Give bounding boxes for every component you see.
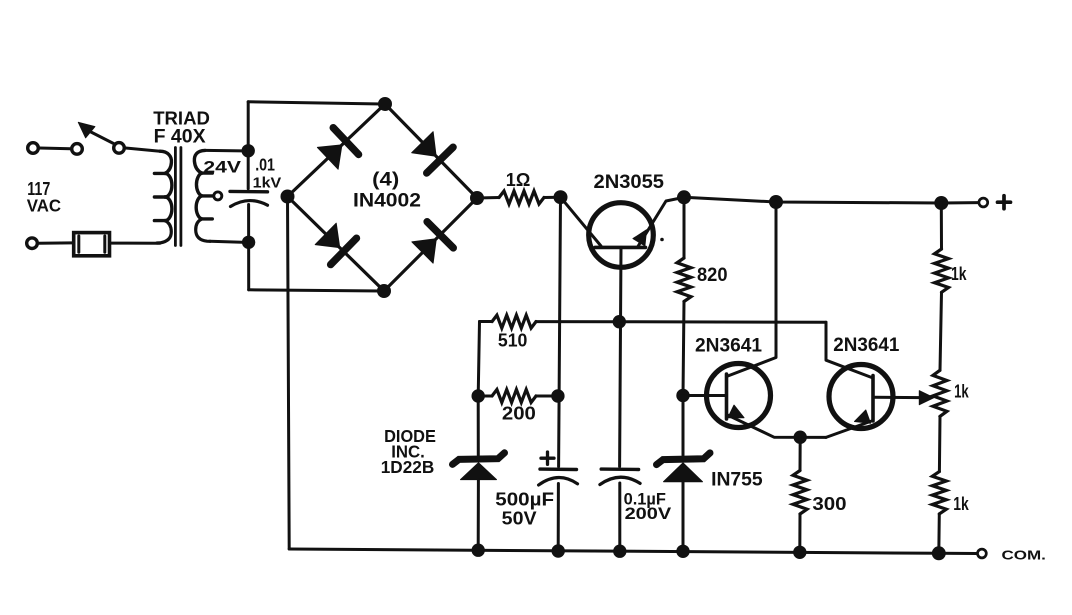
- wire top rail to R6: [940, 203, 943, 249]
- terminal switch left: [72, 144, 83, 155]
- wire 510 to 200 column: [478, 322, 479, 397]
- zener D5 1D22B anode triangle: [461, 463, 497, 480]
- svg-text:24V: 24V: [203, 158, 242, 177]
- label (4) IN4002: [353, 169, 421, 211]
- capacitor C2 500uF plus sign: [541, 452, 554, 464]
- label 117 VAC: [27, 178, 61, 215]
- svg-text:2N3055: 2N3055: [594, 172, 665, 193]
- wire fuse to transformer primary: [112, 242, 161, 245]
- junction base rail at Q1 base: [613, 315, 626, 328]
- wire to bridge top node: [248, 102, 385, 104]
- label 820: [697, 265, 728, 286]
- junction bridge left node: [281, 190, 295, 204]
- wire base rail right: [536, 320, 826, 324]
- svg-text:IN755: IN755: [711, 469, 763, 490]
- resistor R2 820: [677, 258, 691, 302]
- wire bridge to R1: [477, 196, 499, 200]
- svg-text:1k: 1k: [951, 264, 967, 284]
- transistor Q2 2N3641 base bar: [725, 374, 729, 419]
- wire zener D6 to common rail: [682, 482, 685, 552]
- transistor Q3 base wiper arrowhead: [919, 391, 934, 405]
- svg-text:1k: 1k: [953, 494, 969, 514]
- label plus: [998, 196, 1011, 209]
- junction common emitter node: [794, 431, 807, 444]
- svg-text:500µF: 500µF: [495, 488, 554, 509]
- junction common rail at zener D5: [472, 544, 485, 557]
- junction common rail at C2: [552, 544, 565, 557]
- transistor Q1 2N3055 base bar: [595, 246, 646, 250]
- svg-text:200V: 200V: [625, 504, 673, 523]
- transistor Q2 2N3641 collector lead: [727, 202, 777, 377]
- svg-text:.01: .01: [255, 155, 275, 175]
- diode D2 1N4002 (top-right): [412, 132, 453, 173]
- wire base rail: [480, 320, 493, 323]
- potentiometer R7 1k element: [933, 370, 947, 416]
- label 200: [502, 403, 536, 423]
- wire bridge edge top-right: [385, 104, 477, 198]
- transistor Q3 2N3641 emitter lead: [826, 421, 873, 438]
- transistor Q2 2N3641 base lead: [690, 394, 727, 397]
- junction common rail at C3: [613, 545, 626, 558]
- wire R2 to Q2 base: [683, 302, 684, 396]
- svg-text:F 40X: F 40X: [154, 126, 206, 147]
- wire bridge edge left-top: [288, 104, 386, 197]
- zener D6 1N755 anode triangle: [664, 463, 703, 482]
- transistor Q1 2N3055 circle: [589, 203, 654, 268]
- label .01 1kV: [253, 155, 282, 192]
- switch S1 blade: [88, 131, 115, 145]
- svg-text:VAC: VAC: [27, 197, 61, 216]
- svg-text:IN4002: IN4002: [353, 190, 421, 211]
- transformer T1 center tap stub: [202, 194, 213, 197]
- label DIODE INC. 1D22B: [381, 426, 436, 477]
- wire R5 to common rail: [798, 514, 801, 552]
- wire R8 to common rail: [937, 514, 941, 553]
- wire secondary bottom to node: [210, 241, 242, 242]
- junction secondary top: [242, 144, 255, 157]
- transistor Q3 2N3641 collector lead: [826, 322, 873, 378]
- wire C2 to common rail: [557, 484, 560, 552]
- transistor Q1 2N3055 collector lead: [561, 197, 602, 246]
- wire R6 to potentiometer: [940, 292, 942, 370]
- svg-text:300: 300: [812, 493, 846, 514]
- junction raw DC node: [554, 190, 568, 204]
- terminal AC line top: [28, 143, 39, 154]
- resistor R8 1k bottom: [932, 472, 946, 514]
- fuse F1 body: [74, 233, 110, 256]
- wire emitter node to R5: [799, 437, 802, 470]
- transistor Q2 2N3641 circle: [707, 364, 771, 428]
- wire 200 to zener D5: [477, 396, 480, 455]
- transformer T1 core: [175, 148, 181, 246]
- svg-text:1k: 1k: [954, 381, 969, 401]
- capacitor C2 500uF top plate: [540, 467, 577, 471]
- wire secondary top to node: [205, 149, 242, 153]
- wire switch to transformer primary: [126, 148, 160, 151]
- diode D3 1N4002 (left-bottom): [315, 223, 356, 264]
- transformer T1 primary winding: [157, 151, 172, 243]
- wire raw node to filter cap: [559, 197, 561, 466]
- resistor R1 1 ohm: [499, 191, 544, 204]
- wire to COM terminal: [939, 552, 977, 555]
- svg-text:1kV: 1kV: [253, 176, 282, 192]
- wire input bottom: [39, 241, 73, 244]
- wire bridge edge bottom-right: [384, 198, 477, 291]
- resistor R6 1k top: [935, 249, 949, 292]
- label 0.1uF 200V: [624, 489, 673, 523]
- junction top rail at divider: [934, 196, 948, 210]
- wire cap column upper: [247, 102, 250, 189]
- svg-text:50V: 50V: [502, 508, 538, 529]
- capacitor C1 .01 top plate: [230, 190, 268, 194]
- wire Q2 base to zener D6: [682, 396, 685, 456]
- wire to plus terminal: [941, 201, 978, 204]
- wire 200 right stub: [536, 395, 558, 398]
- junction 200 right: [551, 389, 564, 402]
- wire C3 to common rail: [618, 483, 621, 551]
- switch S1 pivot terminal: [114, 143, 125, 154]
- junction bridge right node: [470, 191, 484, 205]
- switch S1 arrowhead: [78, 122, 95, 138]
- junction 200 left: [472, 389, 485, 402]
- label 510: [498, 331, 528, 351]
- label 1k top: [951, 264, 967, 284]
- transformer T1 center tap terminal: [214, 192, 222, 200]
- svg-text:2N3641: 2N3641: [695, 335, 762, 356]
- wire input top: [40, 147, 71, 151]
- diode D1 1N4002 (left-top): [317, 128, 358, 170]
- transistor Q1 2N3055 emitter arrowhead: [633, 230, 647, 246]
- label 2N3641 second: [833, 335, 899, 356]
- resistor R4 200: [492, 390, 536, 403]
- svg-text:COM.: COM.: [1002, 548, 1046, 563]
- label 24V: [203, 158, 242, 177]
- transformer T1 secondary cusp stubs: [202, 173, 213, 219]
- junction common rail at zener D6: [676, 545, 689, 558]
- label IN755: [711, 469, 763, 490]
- wire R1 to raw node: [544, 196, 561, 199]
- label COM.: [1002, 548, 1046, 563]
- wire bridge left node to common rail: [288, 197, 290, 550]
- transistor Q1 2N3055 base lead: [620, 247, 621, 466]
- junction common rail at divider: [932, 546, 946, 560]
- junction bridge bottom node: [377, 284, 391, 298]
- svg-text:(4): (4): [372, 169, 399, 190]
- transformer T1 primary cusp stubs: [154, 173, 165, 220]
- label 1k bottom: [953, 494, 969, 514]
- terminal COM output: [978, 549, 987, 558]
- wire to bridge bottom node: [249, 290, 384, 291]
- transistor Q3 2N3641 base lead: [873, 396, 921, 399]
- capacitor C2 500uF curved plate: [539, 477, 578, 485]
- transistor Q3 2N3641 base bar: [871, 376, 875, 422]
- zener D6 1N755 cathode bar: [657, 453, 711, 465]
- diode D4 1N4002 (bottom-right): [412, 222, 453, 263]
- wire bridge edge left-bottom: [288, 197, 385, 292]
- label 500uF 50V: [495, 488, 554, 528]
- capacitor C1 .01 curved plate: [231, 201, 268, 207]
- wire Q1 emitter to R2: [683, 197, 686, 258]
- wire top rail: [684, 197, 941, 203]
- ink speck: [660, 238, 664, 242]
- wire potentiometer to R8: [938, 416, 942, 471]
- label 1k pot: [954, 381, 969, 401]
- junction top rail at Q2 collector: [769, 195, 783, 209]
- label TRIAD F40X: [153, 108, 210, 147]
- transistor Q2 2N3641 emitter arrowhead: [728, 405, 744, 418]
- fuse F1 end caps: [79, 236, 105, 252]
- transistor Q2 2N3641 emitter lead: [727, 415, 827, 438]
- svg-text:510: 510: [498, 331, 528, 351]
- label 300: [812, 493, 846, 514]
- terminal AC line bottom: [27, 238, 38, 249]
- transistor Q3 2N3641 circle: [829, 365, 893, 429]
- terminal plus output: [979, 198, 988, 207]
- label 2N3641 first: [695, 335, 762, 356]
- wire 200 left stub: [478, 395, 492, 398]
- zener D5 1D22B cathode bar: [453, 453, 505, 465]
- label 1 ohm: [506, 170, 531, 190]
- capacitor C3 0.1uF top plate: [601, 467, 638, 471]
- wire zener D5 to common rail: [477, 480, 480, 551]
- wire common rail: [289, 549, 939, 553]
- wire cap column lower: [247, 205, 250, 290]
- svg-text:1D22B: 1D22B: [381, 457, 435, 477]
- svg-text:200: 200: [502, 403, 536, 423]
- junction Q1 emitter node: [677, 190, 691, 204]
- junction common rail at R5: [793, 546, 806, 559]
- junction Q2 base node: [676, 389, 689, 402]
- junction secondary bottom: [242, 236, 255, 249]
- transformer T1 secondary winding: [194, 150, 210, 241]
- resistor R3 510: [492, 315, 536, 328]
- transistor Q3 2N3641 emitter arrowhead: [855, 410, 871, 423]
- resistor R5 300: [793, 471, 807, 515]
- svg-text:2N3641: 2N3641: [833, 335, 899, 356]
- transistor Q1 2N3055 emitter lead: [638, 197, 685, 247]
- capacitor C3 0.1uF curved plate: [600, 477, 640, 484]
- junction bridge top node: [378, 97, 392, 111]
- svg-text:820: 820: [697, 265, 728, 286]
- svg-text:1Ω: 1Ω: [506, 170, 531, 190]
- label 2N3055: [594, 172, 665, 193]
